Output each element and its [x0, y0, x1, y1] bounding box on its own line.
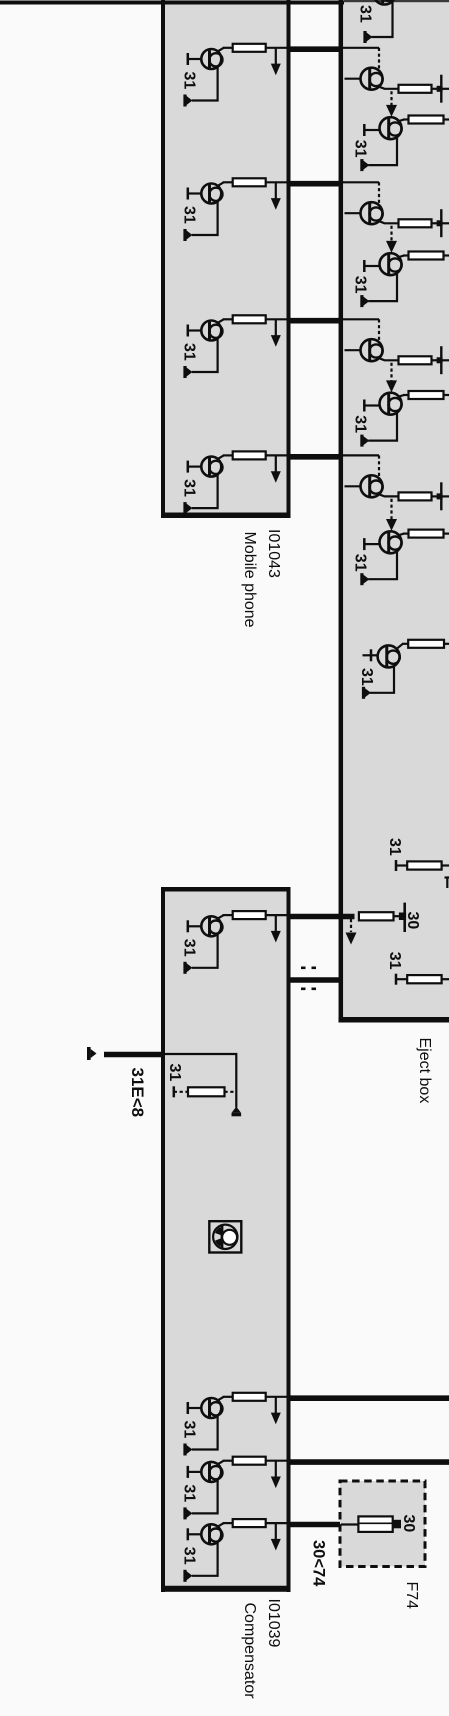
transistor Q8 (compensator): [201, 1524, 222, 1544]
svg-text:I01039: I01039: [265, 1599, 282, 1648]
wire R4b exit: [444, 532, 449, 534]
fuse box F74 outline: [340, 1481, 425, 1567]
wire 31E thick: [104, 1052, 163, 1058]
resistor R3b (eject box): [409, 391, 444, 399]
wire base lead Q1b: [364, 124, 380, 136]
wire row A: [396, 864, 407, 866]
wire emitter Q2a: [378, 221, 399, 223]
transistor Q4 (mobile phone): [201, 457, 222, 477]
wire base lead Q1a: [345, 78, 362, 80]
wire row A exit: [442, 864, 449, 866]
wire R6 to border: [266, 1396, 289, 1398]
resistor R4a (eject box): [399, 492, 432, 500]
wire bus connector 8 (compensator output): [287, 1459, 449, 1465]
ground (compensator): [183, 1444, 192, 1456]
svg-text:31: 31: [352, 554, 369, 572]
wire R3 to border: [266, 318, 289, 320]
mobile phone box I01043 body: [161, 0, 291, 518]
transistor Q7 (compensator): [201, 1462, 222, 1482]
transistor Q4a (eject box): [361, 475, 383, 497]
wire 31E resistor right: [225, 1091, 236, 1093]
scan edge line top right: [344, 0, 449, 2]
ground (mobile phone): [183, 95, 192, 107]
resistor R7: [233, 1457, 266, 1465]
ground (compensator): [183, 962, 192, 974]
svg-text:31: 31: [181, 1421, 198, 1439]
fuse F74: [358, 1516, 392, 1532]
ground pair 3: [360, 435, 369, 447]
wire 30 row to terminal: [394, 915, 404, 917]
resistor 30 row: [359, 912, 394, 920]
junction arrow (compensator): [271, 1523, 281, 1550]
wire collector Q1b: [398, 120, 409, 122]
junction arrow pair 1: [386, 91, 397, 117]
resistor R9 (eject box): [408, 640, 444, 648]
resistor R1: [233, 44, 266, 52]
wire collector Q9: [397, 644, 409, 649]
wire base lead Q2a: [345, 212, 362, 214]
wire connector entry pair 3: [343, 318, 379, 320]
wire bus connector 1 (mobile phone to eject box): [287, 46, 344, 52]
wire base lead Q3a: [345, 349, 362, 351]
wire R1 to border: [266, 47, 289, 49]
transistor Q2 (mobile phone): [201, 184, 222, 204]
wire collector Q4b: [398, 534, 409, 536]
ground (mobile phone): [183, 366, 192, 378]
resistor R5: [233, 911, 266, 919]
wire base lead Q5: [188, 920, 202, 932]
wire connector entry pair 4: [343, 454, 379, 456]
wire dashed drop pair 3: [378, 319, 380, 340]
svg-text:30<74: 30<74: [310, 1540, 328, 1587]
ground (mobile phone): [183, 229, 192, 241]
terminal bar pair 4: [437, 482, 449, 510]
svg-text:31: 31: [352, 140, 369, 158]
svg-text:31: 31: [181, 343, 198, 361]
svg-text:31: 31: [352, 276, 369, 294]
svg-text:I01043: I01043: [265, 529, 282, 578]
resistor R3: [233, 315, 266, 323]
wire emitter Q1a: [378, 86, 399, 88]
transistor Q1a (eject box): [361, 68, 383, 90]
wire R8 to border: [266, 1522, 289, 1524]
wire emitter Q4: [192, 474, 218, 508]
junction arrow pair 3: [386, 363, 397, 393]
svg-text:31: 31: [181, 1547, 198, 1565]
terminal dot F74: [393, 1520, 401, 1529]
wire emitter Q6: [192, 1416, 218, 1450]
svg-text:Compensator: Compensator: [241, 1603, 258, 1700]
wire R3b exit: [444, 394, 449, 396]
wire collector Q6: [218, 1397, 233, 1401]
transistor Q5 (compensator): [201, 916, 222, 936]
ground arrow 31E: [87, 1047, 97, 1060]
terminal bar pair 3: [437, 346, 449, 374]
svg-text:31: 31: [386, 952, 403, 970]
svg-text:Eject box: Eject box: [416, 1038, 433, 1104]
eject box borders: [339, 0, 449, 1023]
wire base lead Q4: [188, 461, 202, 473]
wire base lead Q4b: [364, 538, 380, 550]
wire bus connector 7 (compensator output): [287, 1395, 449, 1401]
wire base lead Q8: [188, 1528, 202, 1540]
ground pair 1: [360, 159, 369, 171]
wire R1b exit: [444, 118, 449, 120]
wire R1a to terminal: [432, 88, 441, 90]
svg-text:31: 31: [181, 1484, 198, 1502]
ground Q9: [362, 687, 371, 699]
transistor Q2a (eject box): [361, 202, 383, 224]
wire base lead Q3b: [364, 400, 380, 412]
wire emitter Q3: [192, 338, 218, 372]
wire bus connector 5 (compensator to eject box, 30): [287, 914, 355, 920]
junction arrow pair 2: [386, 226, 397, 253]
junction arrow (compensator): [271, 1397, 281, 1424]
svg-text:31: 31: [181, 206, 198, 224]
wire emitter Q5: [192, 934, 218, 968]
wire dashed drop pair 4: [378, 455, 380, 476]
svg-text:31: 31: [181, 939, 198, 957]
eject box body: [339, 0, 449, 1023]
transistor Q0 (eject box, cut at top): [374, 0, 396, 5]
compensator box borders: [161, 887, 291, 1592]
wire R4a to terminal: [432, 495, 441, 497]
wire bus connector 6 (compensator to eject box): [287, 977, 342, 983]
resistor R1b (eject box): [409, 116, 444, 124]
svg-text:31: 31: [181, 479, 198, 497]
junction arrow (compensator): [271, 1461, 281, 1488]
compensator box I01039 body: [161, 887, 291, 1592]
svg-text:31: 31: [358, 668, 375, 686]
terminal bar 30 row: [399, 903, 406, 932]
svg-text:30: 30: [400, 1515, 417, 1533]
transistor Q3b (eject box): [380, 393, 402, 415]
wire base lead Q9: [363, 649, 379, 661]
junction arrow (mobile phone): [271, 319, 281, 346]
wire R3a to terminal: [432, 359, 441, 361]
resistor R2a (eject box): [399, 219, 432, 227]
ground pair 2: [360, 295, 369, 307]
wire base lead Q4a: [345, 485, 362, 487]
resistor R3a (eject box): [399, 356, 432, 364]
resistor R2: [233, 178, 266, 186]
svg-text:31: 31: [181, 72, 198, 90]
wire emitter Q7: [192, 1480, 218, 1514]
wire R7 to border: [266, 1460, 289, 1462]
transistor Q9 (eject box single): [378, 645, 400, 667]
wire R5 to border: [266, 914, 289, 916]
wire base lead Q2: [188, 188, 202, 200]
wire bus connector 9 (compensator to fuse F74): [287, 1522, 342, 1528]
wire collector Q3: [218, 319, 233, 323]
junction arrow (compensator): [271, 915, 281, 942]
wire emitter Q2: [192, 201, 218, 235]
wire collector Q3b: [398, 395, 409, 397]
wire collector Q4: [218, 455, 233, 459]
junction arrow (mobile phone): [271, 455, 281, 482]
terminal bar pair 1: [437, 75, 449, 103]
transistor Q3 (mobile phone): [201, 321, 222, 341]
wire R2a to terminal: [432, 222, 441, 224]
wire connector entry pair 2: [343, 181, 379, 183]
wire R2b exit: [444, 254, 449, 256]
svg-text:31: 31: [356, 5, 373, 23]
wire collector Q5: [218, 915, 233, 919]
wire row B: [396, 978, 407, 980]
resistor R6: [233, 1393, 266, 1401]
svg-text:F74: F74: [403, 1582, 420, 1610]
wire bus connector 4 (mobile phone to eject box): [287, 454, 344, 460]
svg-text:31: 31: [352, 415, 369, 433]
wire collector Q7: [218, 1461, 233, 1465]
ground Q0: [363, 31, 372, 43]
wire collector Q1: [218, 48, 233, 52]
junction arrow 30 row: [346, 919, 357, 945]
junction arrow pair 4: [386, 499, 397, 531]
resistor R4: [233, 451, 266, 459]
svg-text:Mobile phone: Mobile phone: [241, 532, 258, 628]
wire emitter Q4a: [378, 494, 399, 496]
fan motor symbol (compensator): [209, 1221, 241, 1252]
wire row B exit: [442, 978, 449, 980]
transistor Q1b (eject box): [380, 117, 402, 139]
wire R4 to border: [266, 454, 289, 456]
mobile phone box borders: [161, 0, 291, 518]
resistor 31E branch: [188, 1087, 225, 1096]
wire collector Q2: [218, 182, 233, 186]
ground pair 4: [360, 573, 369, 585]
junction arrow (mobile phone): [271, 182, 281, 209]
wire emitter Q1: [192, 67, 218, 101]
wire collector Q8: [218, 1523, 233, 1527]
transistor Q3a (eject box): [361, 339, 383, 361]
resistor row B: [407, 975, 441, 983]
transistor Q6 (compensator): [201, 1398, 222, 1418]
junction arrow (mobile phone): [271, 48, 281, 75]
ground 31E branch: [232, 1107, 242, 1117]
resistor R2b (eject box): [409, 252, 444, 260]
wire into F74: [341, 1523, 359, 1525]
resistor R4b (eject box): [409, 530, 444, 538]
svg-text:31E<8: 31E<8: [128, 1068, 147, 1118]
wire base lead Q7: [188, 1466, 202, 1478]
wire base lead Q6: [188, 1402, 202, 1414]
wire dashed drop pair 1: [378, 48, 380, 69]
frame edge line: [0, 1, 344, 5]
wire bus connector 3 (mobile phone to eject box): [287, 318, 344, 324]
ground (mobile phone): [183, 502, 192, 514]
wire connector entry pair 1: [343, 47, 379, 49]
wire emitter Q3b: [368, 413, 397, 441]
terminal tick row B: [395, 974, 398, 985]
wire emitter Q3a: [378, 358, 399, 360]
wire emitter Q4b: [368, 551, 397, 579]
ground (compensator): [183, 1570, 192, 1582]
wire emitter Q8: [192, 1542, 218, 1576]
wire emitter Q1b: [368, 137, 397, 165]
wire base lead Q1: [188, 53, 202, 65]
ground (compensator): [183, 1507, 192, 1519]
wire dashed drop pair 2: [378, 182, 380, 203]
wire collector Q2b: [398, 256, 409, 258]
terminal tick row A: [395, 860, 398, 871]
wire 31E resistor left: [174, 1091, 189, 1093]
terminal bar pair 2: [437, 209, 449, 237]
wire R2 to border: [266, 181, 289, 183]
terminal tick 31E resistor: [173, 1086, 176, 1097]
transistor Q2b (eject box): [380, 253, 402, 275]
pin marks connector 6: [301, 967, 316, 991]
transistor Q1 (mobile phone): [201, 49, 222, 69]
svg-text:30: 30: [404, 912, 421, 930]
wire emitter Q2b: [368, 273, 397, 301]
resistor R1a (eject box): [399, 85, 432, 93]
wire bus connector 2 (mobile phone to eject box): [287, 181, 344, 187]
resistor R8: [233, 1519, 266, 1527]
wire base lead Q3: [188, 325, 202, 337]
svg-text:31: 31: [386, 838, 403, 856]
wire 31E inside box: [163, 1054, 236, 1108]
transistor Q4b (eject box): [380, 531, 402, 553]
wire emitter Q0: [372, 2, 393, 38]
wire emitter Q9: [370, 666, 394, 693]
svg-text:31: 31: [166, 1064, 183, 1082]
resistor row A: [407, 861, 441, 869]
edge mark: [445, 877, 449, 889]
wire base lead Q2b: [364, 260, 380, 272]
wire R9 exit: [444, 643, 449, 645]
